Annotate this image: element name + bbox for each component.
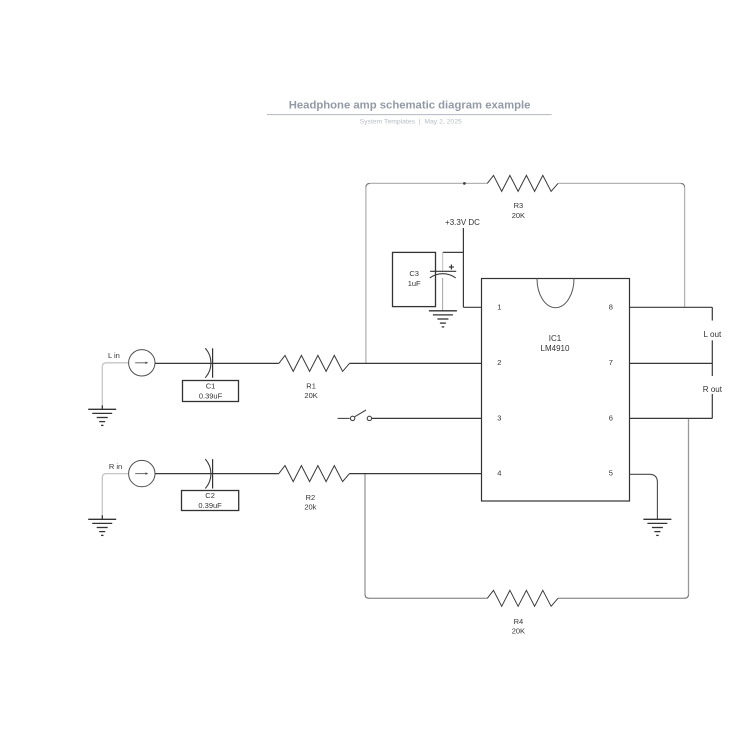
ground pin5: [643, 519, 671, 535]
resistor R4: [487, 590, 558, 606]
svg-text:5: 5: [609, 469, 613, 478]
capacitor C1 curved plate: [205, 348, 211, 377]
wire R row: source to R2: [155, 473, 279, 475]
wire pin1: [463, 306, 481, 308]
label box C1: [183, 381, 239, 402]
ground L in: [88, 405, 116, 425]
source circle L in: [129, 350, 155, 376]
svg-text:IC1: IC1: [549, 334, 562, 343]
IC U1 body: [482, 279, 630, 502]
label box C2: [182, 491, 239, 511]
wire +3.3V rail down to pin1: [462, 228, 464, 307]
switch SW1 pole: [350, 416, 354, 420]
svg-text:6: 6: [609, 414, 613, 423]
svg-text:C3: C3: [409, 269, 419, 278]
wire top feedback loop top run: [370, 182, 487, 184]
wire switch to IC pin3: [372, 417, 482, 419]
capacitor C2 straight plate: [212, 459, 214, 488]
svg-text:2: 2: [497, 358, 501, 367]
wire L out vertical lower: [711, 340, 713, 363]
svg-text:20k: 20k: [304, 503, 316, 512]
svg-text:+3.3V DC: +3.3V DC: [445, 218, 480, 227]
switch SW1 throw: [367, 416, 371, 420]
svg-text:R out: R out: [703, 385, 723, 394]
svg-text:20K: 20K: [512, 627, 525, 636]
switch SW1 lever: [355, 410, 366, 417]
svg-text:4: 4: [497, 469, 501, 478]
wire R out vertical lower: [711, 394, 713, 418]
wire pin8 row: [630, 306, 713, 308]
svg-text:L out: L out: [704, 330, 723, 339]
svg-text:3: 3: [497, 414, 501, 423]
resistor R2: [279, 466, 350, 482]
wire C3 top link: [443, 251, 464, 253]
ground R in: [88, 515, 116, 535]
capacitor C3 plus sign: [449, 265, 454, 270]
capacitor C3 curved plate: [430, 274, 456, 278]
wire L row: R1 to IC pin2: [350, 362, 482, 364]
source circle R in: [129, 460, 155, 486]
wire L source to ground corner: [102, 363, 128, 406]
svg-text:0.39uF: 0.39uF: [199, 392, 223, 401]
wire R source to ground corner: [102, 474, 128, 516]
label box C3: [393, 252, 436, 306]
wire top loop top-right corner: [681, 183, 685, 187]
svg-text:R1: R1: [306, 381, 316, 390]
svg-text:C1: C1: [206, 381, 216, 390]
svg-text:C2: C2: [205, 491, 215, 500]
wire bottom loop bottom-left corner: [365, 594, 369, 598]
svg-text:1: 1: [497, 303, 501, 312]
capacitor C2 curved plate: [205, 459, 211, 488]
svg-text:8: 8: [609, 303, 613, 312]
wire bottom loop bottom-right corner: [685, 594, 689, 598]
wire R out vertical upper: [711, 363, 713, 376]
wire top feedback loop right run: [558, 182, 681, 184]
switch SW1 stub: [338, 417, 350, 419]
ground C3: [429, 311, 457, 327]
wire pin7 row: [630, 362, 713, 364]
svg-text:0.39uF: 0.39uF: [198, 501, 222, 510]
wire L out vertical upper: [711, 307, 713, 320]
capacitor C3 straight plate: [430, 270, 456, 272]
wire R row: R2 to IC pin4: [350, 473, 482, 475]
wire C3 lead top: [442, 252, 444, 271]
resistor R3: [487, 175, 558, 191]
capacitor C1 straight plate: [212, 348, 214, 377]
title rule: [267, 114, 552, 116]
wire pin6 row: [630, 417, 713, 419]
svg-text:R2: R2: [306, 493, 316, 502]
wire top feedback loop right vertical: [684, 187, 686, 307]
svg-text:R4: R4: [514, 617, 524, 626]
wire pin5 to ground: [630, 474, 658, 519]
IC notch: [537, 279, 574, 308]
svg-text:R in: R in: [109, 462, 122, 471]
wire top loop top-left corner: [366, 183, 370, 187]
node junction dot on top wire: [463, 182, 466, 185]
svg-text:1uF: 1uF: [408, 279, 421, 288]
wire bottom feedback loop bottom-right run: [558, 597, 685, 599]
wire C3 lead bottom: [442, 278, 444, 311]
wire bottom feedback loop right vertical: [688, 418, 690, 594]
svg-text:System Templates | May 2, 20: System Templates | May 2, 2025: [360, 118, 462, 125]
wire bottom feedback loop left vertical: [364, 474, 366, 595]
resistor R1: [279, 355, 350, 371]
svg-text:LM4910: LM4910: [541, 344, 570, 353]
svg-text:20K: 20K: [304, 391, 317, 400]
svg-text:7: 7: [609, 358, 613, 367]
svg-text:R3: R3: [514, 201, 524, 210]
wire L row: source to R1: [155, 362, 279, 364]
svg-text:20K: 20K: [512, 211, 525, 220]
svg-text:Headphone amp schematic diagra: Headphone amp schematic diagram example: [289, 100, 531, 112]
wire bottom feedback loop bottom run: [369, 597, 487, 599]
svg-text:L in: L in: [108, 351, 120, 360]
wire top feedback loop left vertical: [365, 187, 367, 363]
